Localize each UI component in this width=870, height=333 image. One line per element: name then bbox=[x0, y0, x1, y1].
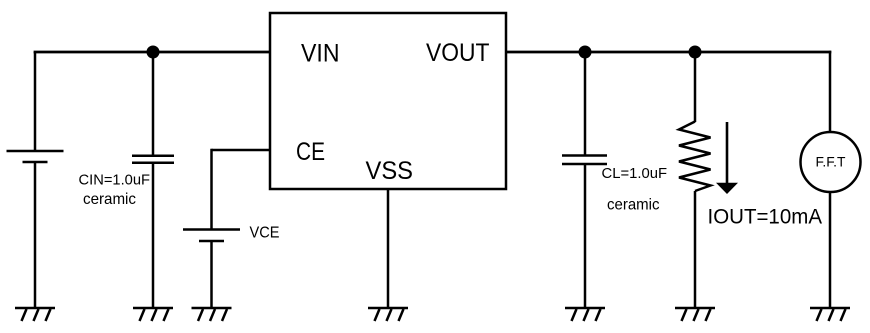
svg-text:IOUT=10mA: IOUT=10mA bbox=[708, 206, 823, 229]
wire: CL upper lead bbox=[584, 52, 587, 156]
wire: VCE battery riser bbox=[210, 149, 213, 230]
wire: resistor lower lead bbox=[694, 191, 697, 308]
svg-text:VCE: VCE bbox=[250, 225, 280, 242]
svg-text:F.F.T: F.F.T bbox=[816, 154, 846, 170]
svg-text:CL=1.0uF: CL=1.0uF bbox=[602, 165, 668, 182]
node: junction of CIN on input rail bbox=[147, 46, 160, 59]
wire: top rail from battery to VIN pin bbox=[34, 51, 270, 54]
meter U2 F.F.T instrument bbox=[801, 132, 861, 192]
svg-text:VOUT: VOUT bbox=[426, 39, 490, 67]
svg-text:VIN: VIN bbox=[301, 40, 340, 68]
svg-text:CE: CE bbox=[296, 138, 325, 166]
resistor RL load bbox=[679, 122, 711, 192]
ground: VSS bbox=[368, 308, 408, 321]
svg-text:CIN=1.0uF: CIN=1.0uF bbox=[79, 172, 151, 189]
node: junction of load resistor on output rail bbox=[689, 46, 702, 59]
svg-text:ceramic: ceramic bbox=[607, 197, 660, 214]
wire: output rail from VOUT pin bbox=[506, 51, 831, 54]
battery VIN source bbox=[7, 151, 64, 162]
wire: FFT meter lower lead bbox=[829, 192, 832, 308]
ground: FFT meter bbox=[810, 308, 850, 321]
ground: CIN bbox=[133, 308, 173, 321]
ground: VCE bbox=[192, 308, 232, 321]
ground: CL bbox=[565, 308, 605, 321]
wire: battery positive riser bbox=[34, 52, 37, 151]
capacitor CIN bbox=[132, 156, 174, 163]
node: junction of CL on output rail bbox=[579, 46, 592, 59]
svg-text:VSS: VSS bbox=[366, 157, 414, 185]
wire: battery negative lead bbox=[34, 162, 37, 308]
op-amp U1 regulator body bbox=[270, 13, 506, 189]
arrow: IOUT current direction bbox=[716, 122, 738, 194]
wire: CL lower lead bbox=[584, 164, 587, 308]
ground: input battery bbox=[15, 308, 55, 321]
wire: FFT meter upper lead bbox=[829, 51, 832, 132]
wire: CIN lower lead bbox=[152, 163, 155, 308]
ground: load resistor bbox=[675, 308, 715, 321]
wire: VCE negative lead bbox=[210, 241, 213, 308]
battery VCE bbox=[183, 230, 240, 242]
wire: VSS pin lead bbox=[387, 189, 390, 308]
wire: CE pin lead (horizontal) bbox=[212, 149, 271, 152]
wire: CIN upper lead bbox=[152, 52, 155, 156]
svg-text:ceramic: ceramic bbox=[83, 191, 136, 208]
capacitor CL bbox=[562, 156, 607, 165]
wire: resistor upper lead bbox=[694, 52, 697, 122]
